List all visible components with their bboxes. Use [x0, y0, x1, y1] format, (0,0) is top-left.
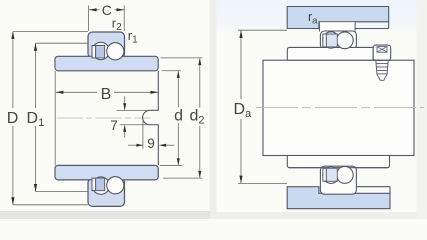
dim 7 extension top [117, 109, 150, 111]
collar line redraw over box top (bottom) [289, 167, 387, 169]
dim C extension lines [88, 6, 90, 32]
ball (bottom left) [92, 177, 109, 194]
top-right pale tint [217, 0, 427, 32]
dim 7 extension bottom [120, 124, 150, 126]
ball (top right) [107, 43, 124, 60]
dim Da extension top [238, 29, 287, 31]
svg-text:d: d [174, 108, 183, 125]
outer ring O1 (top box) [88, 32, 125, 58]
extended inner ring collar (bottom) [287, 156, 389, 168]
dim D extension top [13, 30, 88, 32]
housing end line right of bearing (bottom) [355, 186, 390, 188]
arrow B left [56, 91, 64, 94]
dim 7 line upper [124, 96, 126, 110]
arrow d2 top [198, 58, 201, 65]
arrow d2 bottom [198, 171, 201, 178]
outer ring O1 (bottom box) [88, 178, 125, 206]
dim C line [89, 9, 100, 11]
dim Da extension bottom [238, 182, 287, 184]
dim B line [56, 91, 97, 93]
cage (top) [92, 46, 105, 58]
inner ring plate (top, width B) [55, 56, 158, 71]
bottom page edge strip [0, 211, 210, 219]
dim 7 line lower [124, 125, 126, 137]
shaft top line through boss [373, 59, 391, 61]
arrow Da top [239, 30, 242, 38]
arrow B right [151, 91, 159, 94]
ball (right view top right) [336, 32, 353, 49]
ball (right view bottom left) [323, 167, 339, 183]
arrow Da bottom [239, 176, 242, 184]
housing end line right of bearing (top) [355, 28, 389, 30]
arrowheads left view [11, 8, 201, 205]
cage (bottom) [92, 178, 105, 190]
dim D extension bottom [13, 204, 88, 206]
dim D line [12, 32, 14, 108]
inner ring plate (bottom) [55, 165, 158, 179]
dim 9 line left [128, 144, 143, 146]
cage (right view bottom) [323, 168, 337, 181]
inner ring sleeve edge with snap groove (right side, notch) [143, 71, 159, 166]
arrow 7 down [123, 103, 126, 110]
set screw threaded body [376, 60, 388, 80]
extended inner ring collar (top) [287, 47, 373, 60]
svg-text:D: D [7, 110, 19, 127]
arrow D1 bottom [34, 184, 37, 192]
plate redraw over bottom box top [55, 165, 158, 179]
centerline (right view axis) [256, 107, 424, 109]
dim d2 extension bottom [163, 177, 202, 179]
dim d extension top [162, 70, 181, 72]
arrow 9 left [159, 144, 166, 147]
dim B extension left [54, 71, 56, 165]
set screw boss [373, 45, 391, 60]
set screw head [377, 46, 388, 52]
arrow 9 right [136, 144, 143, 147]
shaft [263, 60, 414, 155]
dim 9 extension [142, 118, 144, 149]
labels right view [234, 10, 319, 120]
ball (bottom right) [107, 177, 124, 194]
arrow D bottom [11, 197, 14, 205]
housing band (bottom) with recess [287, 187, 390, 209]
dim D1 line [35, 43, 37, 108]
svg-text:B: B [101, 86, 112, 103]
svg-text:7: 7 [110, 118, 118, 133]
ball (top left) [92, 42, 109, 59]
svg-text:9: 9 [147, 136, 155, 151]
dim d extension bottom [160, 164, 182, 166]
arrow D1 top [34, 43, 37, 51]
outer ring box (right view top) [320, 31, 356, 49]
dim D1 extension bottom [36, 191, 88, 193]
dim d2 extension top [161, 57, 203, 59]
arrow d top [177, 71, 180, 78]
ball (right view bottom right) [336, 167, 353, 184]
column divider strip [210, 0, 217, 212]
ball (right view top left) [323, 32, 339, 48]
dim d2 line [199, 59, 201, 108]
dim D1 extension top [36, 42, 88, 44]
dim d line [177, 71, 179, 107]
labels left view [7, 2, 205, 151]
page right edge strip [417, 0, 427, 219]
svg-text:C: C [102, 2, 112, 18]
arrow C left [89, 8, 97, 11]
dim Da line [240, 31, 242, 99]
arrow C right [117, 8, 125, 11]
arrow d bottom [177, 158, 180, 165]
housing band (top) with bearing seat recess [287, 7, 389, 29]
outer ring upper land in recess (top) [319, 22, 355, 31]
centerline (left view axis) [57, 117, 151, 119]
arrow 7 up [123, 125, 126, 132]
arrow D top [11, 31, 14, 39]
cage (right view top) [323, 34, 337, 47]
outer ring box (right view bottom) [320, 166, 356, 194]
dim 9 line right [160, 144, 175, 146]
